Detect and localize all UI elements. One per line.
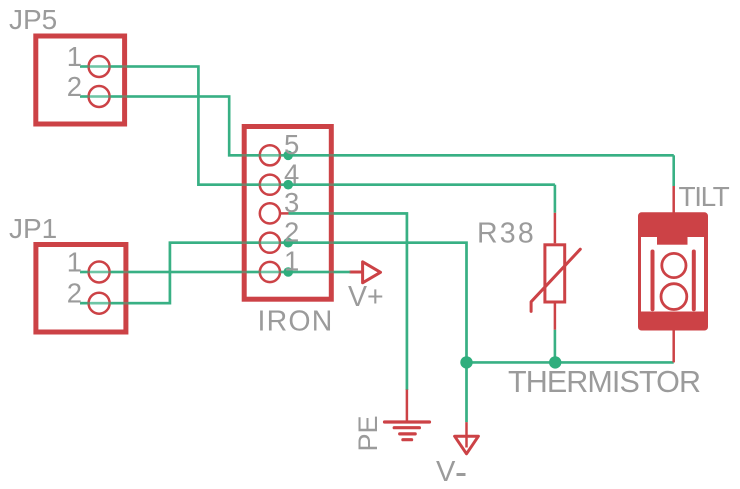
svg-text:2: 2 [67,278,82,309]
svg-text:2: 2 [284,216,299,247]
junction IRON pin 2 [283,238,293,248]
svg-text:R38: R38 [477,217,536,249]
svg-text:THERMISTOR: THERMISTOR [508,365,700,399]
junction dots [283,151,561,369]
wire IRON.3 to PE [289,213,407,390]
wire overlay JP1.2 to IRON.2 to V- [80,243,467,422]
wires overlay (50% for blended crossings) [80,67,674,423]
thermistor R38 bottom pin [554,304,557,330]
wire overlay JP5.2 to IRON.5 [80,97,674,156]
svg-text:PE: PE [353,415,383,451]
PE ground bar 3 [400,432,416,435]
IRON pin 3 stub [280,212,289,215]
junction IRON pin 5 [283,151,293,161]
wire IRON.5 branch to TILT [672,155,675,186]
junction R38 / THERMISTOR [549,356,561,368]
wire JP1.2 to IRON.2 to V- [80,243,467,422]
thermistor R38 top pin [554,213,557,244]
junction IRON pin 1 [283,267,293,277]
wire overlay IRON.3 to PE [289,213,407,390]
svg-text:IRON: IRON [258,306,334,338]
thermistor R38 diagonal [531,249,580,311]
wire R38 bottom [554,330,557,363]
connector JP1 body [36,245,126,333]
tilt switch upper ball [662,253,686,277]
connector IRON body [244,127,331,300]
tilt switch bottom pin [672,330,675,362]
wire overlay JP5.1 to IRON.4 [80,67,555,185]
tilt switch tab [657,237,688,245]
PE ground stub [406,389,409,422]
V+ supply symbol tail [350,271,364,274]
svg-text:TILT: TILT [679,181,730,212]
junction IRON pin 4 [283,180,293,190]
svg-text:1: 1 [284,246,299,277]
svg-text:V+: V+ [348,281,384,313]
svg-text:1: 1 [67,41,82,72]
PE ground bar 1 [385,420,430,423]
tilt switch TILT body [638,212,708,330]
JP5 pin 2 circle [89,86,110,107]
JP5 pin 1 circle [89,56,110,77]
svg-text:4: 4 [284,158,299,189]
svg-text:3: 3 [284,187,299,218]
thermistor R38 body [545,245,565,302]
PE ground bar 2 [394,426,419,429]
tilt switch right electrode [692,252,696,310]
wire THERMISTOR net [467,361,674,364]
IRON pin 1 circle [260,262,280,282]
wire IRON.4 branch to R38 [554,185,557,213]
V- supply pin [465,422,468,447]
junction V- / THERMISTOR [460,356,472,368]
label V- dash [457,473,466,476]
JP1 pin 1 circle [89,262,110,283]
tilt switch window [641,237,704,312]
tilt switch left electrode [651,252,655,310]
svg-text:5: 5 [284,129,299,160]
wire JP1.1 to IRON.1 to V+ [80,271,351,274]
tilt switch lower ball [661,284,687,310]
tilt switch top pin [672,186,675,213]
svg-text:JP5: JP5 [9,4,57,35]
PE ground bar 4 [403,438,412,441]
svg-text:V: V [436,456,456,488]
V- supply arrow [455,436,479,454]
wire JP5.1 to IRON.4 [80,67,555,185]
svg-text:JP1: JP1 [9,213,57,244]
wire JP5.2 to IRON.5 [80,97,674,156]
V+ supply arrow [363,262,381,283]
IRON pin 3 circle [260,203,280,223]
IRON pin 4 circle [260,175,280,195]
JP1 pin 2 circle [89,293,110,314]
IRON pin 5 circle [260,145,280,165]
wire overlay JP1.1 to IRON.1 to V+ [80,271,351,274]
svg-text:1: 1 [67,247,82,278]
connector JP5 body [36,36,125,124]
IRON pin 2 circle [260,233,280,253]
svg-text:2: 2 [67,71,82,102]
